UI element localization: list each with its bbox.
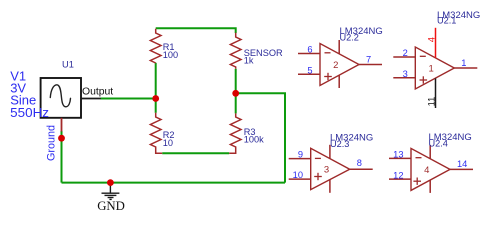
op-amp U2.2 plus sign vertical <box>327 73 329 80</box>
resistor R1 <box>150 29 161 63</box>
op-amp U2.1 pin 2 inverting input wire <box>393 56 415 58</box>
svg-text:13: 13 <box>393 150 403 160</box>
svg-text:6: 6 <box>307 45 312 55</box>
node dot V1 ground <box>58 135 65 142</box>
svg-text:1k: 1k <box>244 56 254 66</box>
op-amp U2.4 plus sign vertical <box>416 178 418 185</box>
op-amp U2.3 plus sign vertical <box>317 173 319 180</box>
op-amp U2.3 pin 10 non-inverting input wire <box>289 178 311 180</box>
svg-text:3: 3 <box>324 164 329 175</box>
svg-text:8: 8 <box>357 158 362 168</box>
svg-text:9: 9 <box>298 149 303 159</box>
op-amp U2.3 <box>289 133 374 193</box>
svg-text:2: 2 <box>403 48 408 58</box>
op-amp U2.4 pin 14 output wire <box>450 168 473 170</box>
op-amp U2.1 plus sign horizontal <box>420 79 428 81</box>
wire V1 ground drop <box>61 131 63 183</box>
V1 ground pin stub <box>61 118 63 132</box>
svg-text:2: 2 <box>333 60 338 71</box>
wire sensor bottom column <box>235 69 237 114</box>
svg-text:1: 1 <box>428 64 433 75</box>
op-amp U2.2 V+ power stub <box>338 40 340 54</box>
wire Output net <box>101 98 156 100</box>
op-amp U2.2 V- power stub <box>338 75 340 88</box>
svg-text:100: 100 <box>163 50 178 60</box>
node dot output <box>152 95 159 102</box>
svg-text:Output: Output <box>82 87 113 98</box>
svg-text:4: 4 <box>424 165 429 176</box>
svg-text:U2.3: U2.3 <box>330 139 349 149</box>
op-amp U2.3 minus sign <box>315 157 321 159</box>
op-amp U2.1 <box>393 10 480 108</box>
op-amp U2.2 triangle body <box>320 44 359 86</box>
resistor R3 <box>229 113 241 153</box>
op-amp U2.4 <box>389 132 473 193</box>
ground symbol <box>102 183 120 200</box>
op-amp U2.2 pin 6 inverting input wire <box>298 53 320 55</box>
op-amp U2.2 minus sign <box>325 52 331 54</box>
svg-text:5: 5 <box>307 65 312 75</box>
op-amp U2.2 pin 5 non-inverting input wire <box>298 73 320 75</box>
op-amp U2.3 pin 8 output wire <box>350 168 373 170</box>
svg-text:12: 12 <box>393 170 403 180</box>
svg-text:GND: GND <box>97 199 125 213</box>
op-amp U2.1 pin 3 non-inverting input wire <box>393 77 415 79</box>
svg-text:100k: 100k <box>244 135 264 145</box>
pin 11 V- <box>435 78 437 108</box>
op-amp U2.4 V- power stub <box>429 180 431 193</box>
wire top bridge <box>156 28 236 33</box>
op-amp U2.4 pin 12 non-inverting input wire <box>389 178 411 180</box>
svg-text:U2.4: U2.4 <box>429 139 448 149</box>
op-amp U2.3 triangle body <box>311 148 350 189</box>
node dot GND rail <box>107 179 114 186</box>
svg-text:11: 11 <box>426 97 436 107</box>
resistor SENSOR <box>230 33 241 69</box>
svg-text:U2.2: U2.2 <box>340 32 359 42</box>
op-amp U2.2 pin 7 output wire <box>359 64 382 66</box>
wire R1 bottom to R2 top <box>155 63 157 113</box>
op-amp U2.4 minus sign <box>416 157 422 159</box>
pin 4 V+ <box>435 28 437 58</box>
op-amp U2.2 plus sign horizontal <box>324 76 332 78</box>
op-amp U2.4 pin 13 inverting input wire <box>389 157 411 159</box>
op-amp U2.1 plus sign vertical <box>422 76 424 83</box>
wire ground rail <box>62 182 286 184</box>
op-amp U2.2 <box>298 26 383 88</box>
svg-text:Ground: Ground <box>45 125 57 161</box>
voltage source V1 box <box>41 78 81 118</box>
node dot sensor <box>232 90 239 97</box>
svg-text:4: 4 <box>426 37 436 42</box>
svg-text:U1: U1 <box>62 59 74 69</box>
op-amp U2.3 V- power stub <box>329 180 331 193</box>
svg-text:10: 10 <box>293 170 303 180</box>
svg-text:7: 7 <box>366 54 371 64</box>
op-amp U2.1 pin 1 output wire <box>454 67 477 69</box>
svg-text:14: 14 <box>457 159 467 169</box>
svg-text:1: 1 <box>461 58 466 68</box>
op-amp U2.4 plus sign horizontal <box>413 180 421 182</box>
op-amp U2.4 triangle body <box>411 148 450 190</box>
wire node B right and down <box>236 93 285 182</box>
op-amp U2.4 V+ power stub <box>429 145 431 159</box>
svg-text:10: 10 <box>163 138 173 148</box>
op-amp U2.1 triangle body <box>415 47 454 89</box>
svg-text:3: 3 <box>403 69 408 79</box>
resistor R2 <box>150 113 162 153</box>
op-amp U2.3 V+ power stub <box>329 145 331 159</box>
V1 sine waveform <box>50 85 70 107</box>
svg-text:550Hz: 550Hz <box>10 105 49 120</box>
op-amp U2.3 plus sign horizontal <box>314 176 322 178</box>
op-amp U2.3 pin 9 inverting input wire <box>289 158 311 160</box>
svg-text:U2.1: U2.1 <box>437 15 456 25</box>
V1 output pin stub <box>82 98 101 100</box>
wire bottom bridge R2-R3 <box>162 152 229 154</box>
op-amp U2.1 minus sign <box>420 55 426 57</box>
